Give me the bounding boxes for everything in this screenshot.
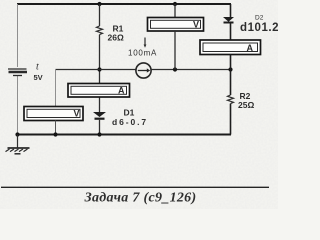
svg-text:d6-0.7: d6-0.7	[112, 117, 148, 127]
svg-text:5V: 5V	[34, 73, 43, 82]
wire: R2 to bottom rail	[230, 104, 232, 135]
svg-text:A: A	[118, 86, 125, 96]
wire: junction to R2	[230, 70, 232, 96]
battery E	[8, 69, 27, 76]
resistor R1	[97, 26, 103, 35]
wire: D1 to bottom rail	[99, 120, 101, 135]
svg-text:V: V	[74, 109, 80, 119]
wire: D2 to ammeter A2	[230, 23, 232, 41]
node: junction source wire × R1 branch	[97, 67, 101, 71]
svg-text:100mA: 100mA	[128, 49, 157, 58]
node: junction source wire at right column	[228, 67, 232, 71]
diode D2	[223, 17, 234, 23]
wire: top rail	[17, 3, 231, 5]
wire: R1 top lead	[99, 4, 101, 26]
node: bottom rail junction at V1	[53, 132, 57, 136]
svg-text:d101.2: d101.2	[240, 22, 278, 34]
wire: ammeter A1 to diode D1	[99, 97, 101, 112]
svg-text:26Ω: 26Ω	[108, 33, 124, 43]
voltmeter V1	[24, 107, 83, 121]
label D1 d6-0.7	[112, 108, 148, 128]
current source I1	[136, 63, 151, 78]
label R1 26Ω	[108, 24, 124, 43]
diode D1	[93, 112, 106, 119]
svg-text:D1: D1	[124, 108, 135, 118]
resistor R2	[228, 95, 234, 104]
ammeter A1	[68, 84, 130, 98]
wire: V1 top stub	[55, 70, 57, 108]
svg-text:Задача 7 (с9_126): Задача 7 (с9_126)	[84, 191, 197, 206]
svg-text:25Ω: 25Ω	[238, 100, 254, 110]
node: top rail junction at V2 branch	[173, 2, 177, 6]
wire: V2 bottom stub	[174, 31, 176, 70]
ground	[6, 148, 30, 154]
wire: V2 top stub	[174, 4, 176, 18]
wire: bottom rail	[18, 134, 232, 136]
wire: right column top	[230, 4, 232, 17]
label R2 25Ω	[238, 91, 254, 110]
node: bottom rail junction at ground	[15, 132, 19, 136]
label I direction arrow	[144, 38, 147, 48]
node: junction source wire at V2 drop	[173, 67, 177, 71]
svg-text:A: A	[247, 43, 254, 53]
wire: current source to right column	[151, 69, 231, 71]
wire: ground stub	[17, 135, 19, 148]
svg-text:V: V	[193, 20, 199, 30]
node: bottom rail junction at D1	[97, 132, 101, 136]
voltmeter V2	[148, 18, 204, 32]
wire: V1 bottom stub	[55, 121, 57, 135]
svg-text:D2: D2	[255, 15, 264, 22]
ammeter A2	[200, 40, 261, 55]
wire: A2 to junction	[230, 55, 232, 70]
node: top rail junction at R1 branch	[97, 2, 101, 6]
wire: R1 to ammeter A1	[99, 35, 101, 84]
separator rule	[1, 186, 269, 188]
wire: battery feed to current source	[56, 69, 137, 71]
wire: left column	[17, 4, 19, 135]
label battery: t 5V	[34, 62, 43, 83]
svg-text:t: t	[36, 62, 39, 73]
